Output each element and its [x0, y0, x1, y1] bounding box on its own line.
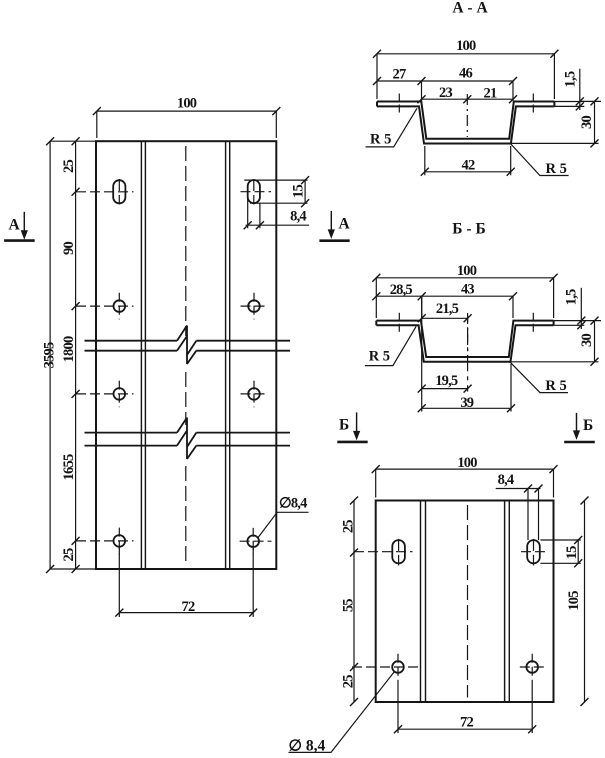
svg-text:105: 105: [566, 591, 582, 611]
svg-text:19,5: 19,5: [435, 373, 458, 389]
svg-text:25: 25: [61, 160, 77, 173]
svg-text:1,5: 1,5: [564, 289, 580, 305]
svg-text:27: 27: [393, 66, 406, 82]
svg-text:43: 43: [461, 281, 474, 297]
svg-text:25: 25: [61, 548, 77, 561]
svg-text:55: 55: [340, 599, 356, 612]
svg-text:R 5: R 5: [546, 161, 567, 177]
svg-text:1655: 1655: [61, 454, 77, 480]
svg-text:30: 30: [579, 116, 595, 129]
svg-text:Б: Б: [583, 417, 593, 434]
svg-text:39: 39: [460, 395, 473, 411]
svg-text:72: 72: [460, 714, 473, 730]
svg-text:72: 72: [182, 599, 195, 615]
svg-text:R 5: R 5: [370, 132, 391, 148]
svg-text:Б - Б: Б - Б: [452, 221, 485, 238]
svg-text:∅8,4: ∅8,4: [279, 495, 307, 511]
svg-text:42: 42: [462, 157, 475, 173]
svg-text:Б: Б: [339, 417, 349, 434]
svg-text:8,4: 8,4: [290, 208, 306, 224]
svg-text:R 5: R 5: [369, 349, 390, 365]
svg-text:90: 90: [61, 242, 77, 255]
svg-text:∅ 8,4: ∅ 8,4: [289, 738, 326, 755]
svg-text:А - А: А - А: [452, 0, 488, 17]
svg-text:1,5: 1,5: [563, 71, 579, 87]
svg-text:100: 100: [456, 38, 476, 54]
svg-text:1800: 1800: [61, 336, 77, 362]
svg-text:25: 25: [340, 675, 356, 688]
svg-text:28,5: 28,5: [390, 282, 413, 298]
svg-text:100: 100: [457, 263, 477, 279]
svg-text:А: А: [339, 216, 351, 233]
svg-text:100: 100: [457, 455, 477, 471]
svg-text:46: 46: [459, 66, 472, 82]
svg-text:21: 21: [484, 86, 497, 102]
svg-text:15: 15: [291, 185, 307, 198]
svg-text:21,5: 21,5: [436, 301, 459, 317]
svg-text:8,4: 8,4: [498, 472, 514, 488]
svg-text:30: 30: [579, 334, 595, 347]
svg-text:R 5: R 5: [545, 378, 566, 394]
svg-text:А: А: [9, 217, 21, 234]
svg-text:3595: 3595: [41, 342, 57, 368]
svg-text:15: 15: [564, 546, 580, 559]
svg-text:25: 25: [340, 520, 356, 533]
svg-text:23: 23: [439, 85, 452, 101]
svg-text:100: 100: [177, 96, 197, 112]
